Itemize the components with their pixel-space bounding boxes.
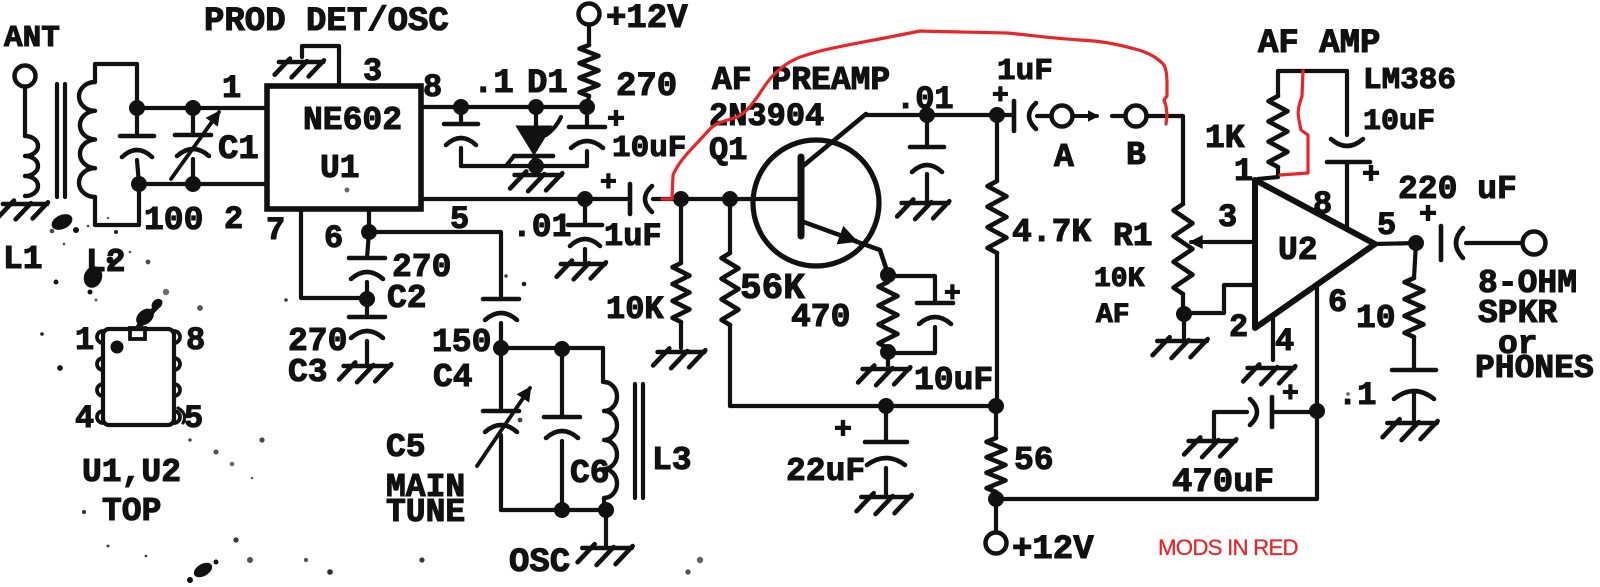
IC package U1,U2 top view [103,329,174,425]
node (C1 bottom) [185,176,201,192]
svg-text:8: 8 [423,69,442,106]
node (output) [1408,235,1424,251]
capacitor 1uF (preamp out) [1012,101,1017,131]
speaker terminal [1523,232,1546,255]
svg-text:7: 7 [266,212,285,249]
ground (470) [863,367,910,372]
wire (tank top) [501,346,603,350]
capacitor 470uF [1214,412,1247,438]
svg-text:U2: U2 [1278,232,1318,269]
wire (470 gnd stub) [886,352,890,366]
resistor 1K [1276,71,1280,96]
svg-text:470uF: 470uF [1172,464,1274,502]
ground (.01 output) [561,262,605,267]
node (470uF) [1309,403,1325,419]
node (.1 cap) [453,99,469,115]
pin 4 wire [1271,315,1275,360]
svg-text:.01: .01 [512,209,571,246]
svg-text:+: + [992,81,1009,112]
capacitor 10uF (NE602 supply) [585,107,589,127]
node (56 top) [988,398,1004,414]
svg-text:4: 4 [75,400,94,437]
capacitor C4 150 [483,297,519,302]
svg-text:U1,U2: U1,U2 [82,454,181,491]
ground (22uF) [861,495,910,500]
svg-text:150: 150 [432,324,491,361]
svg-text:C4: C4 [433,359,473,396]
node (Q1 emitter) [880,267,896,283]
antenna terminal ANT [15,66,36,87]
svg-text:L3: L3 [652,442,692,479]
svg-text:.1: .1 [1338,377,1376,414]
svg-text:AF: AF [1096,300,1130,331]
node (L2 bottom) [131,176,147,192]
power terminal +12V (top) [579,4,600,25]
inductor L2 [79,82,95,197]
svg-text:LM386: LM386 [1363,63,1456,98]
wire (gain rail) [1278,69,1347,73]
resistor 56K [728,199,732,253]
transistor Q1 [753,140,879,266]
inductor L1 [25,136,38,196]
svg-text:1uF: 1uF [604,218,662,255]
svg-text:NE602: NE602 [303,102,402,139]
resistor 10K (base) [679,199,683,263]
red mod wire (gain) [1280,71,1308,175]
scan speckles [1346,392,1350,396]
pin 6 wire [367,209,371,232]
node (tank top) [493,340,509,356]
pin 6 wire [996,285,1317,499]
transformer core (L3) [633,384,637,498]
node (Q1 base) [673,191,689,207]
wire (pin6 to C4) [369,232,501,299]
svg-text:100: 100 [144,202,203,239]
svg-text:4: 4 [1275,323,1294,360]
svg-text:C3: C3 [288,354,328,391]
IC U1 NE602 box [267,86,421,209]
svg-text:1: 1 [222,70,241,107]
svg-text:2: 2 [224,201,243,238]
capacitor 100 [135,108,139,136]
capacitor 1uF (coupling) [628,184,633,214]
svg-text:R1: R1 [1113,218,1153,255]
svg-text:10K: 10K [606,291,664,328]
capacitor .1 [459,107,463,124]
svg-text:1: 1 [1234,153,1253,190]
svg-text:6: 6 [324,220,343,257]
ink smudge (L1 ground) [49,211,75,233]
resistor 10 (zobel) [1414,243,1416,278]
resistor 270 (supply) [580,45,599,96]
pin 5 output wire [421,197,630,201]
svg-text:1: 1 [75,322,94,359]
svg-text:Q1: Q1 [709,132,747,169]
svg-text:TUNE: TUNE [386,494,465,531]
svg-text:+: + [1282,379,1299,410]
wire (R1 gnd stub) [1182,314,1186,338]
power terminal +12V (bottom) [986,533,1007,554]
svg-text:+: + [1362,159,1380,193]
capacitor 10uF (gain) [1345,71,1349,135]
svg-text:5: 5 [184,400,203,437]
op-amp U2 LM386 [1255,180,1375,328]
capacitor C2 270 [367,232,369,258]
node (.01 preamp) [919,107,935,123]
node (22uF) [878,398,894,414]
svg-text:ANT: ANT [4,21,60,56]
node (C6 top) [554,341,570,357]
node (C6 bottom) [554,502,570,518]
svg-text:+: + [944,279,961,310]
ground (R1) [1157,339,1206,344]
node (270/10uF) [579,99,595,115]
node (56/rail) [988,491,1004,507]
pin 5 wire [1375,243,1416,244]
svg-text:56: 56 [1014,442,1054,479]
node (C1 top) [185,100,201,116]
node (56K tap) [722,191,738,207]
svg-text:TOP: TOP [102,493,161,530]
svg-text:.1: .1 [473,65,514,103]
svg-text:PHONES: PHONES [1475,350,1594,387]
ground (oscillator) [582,546,631,551]
node (D1 bottom) [528,158,544,174]
wire (osc ground stub) [604,510,608,545]
svg-text:6: 6 [1328,284,1347,321]
svg-text:10K: 10K [1094,264,1145,295]
transformer core [55,84,59,197]
svg-text:3: 3 [1218,199,1237,236]
svg-text:270: 270 [616,68,677,106]
svg-text:10uF: 10uF [914,362,993,399]
ink smudge [133,305,157,329]
svg-text:22uF: 22uF [786,453,865,490]
ground (pin 3) [279,60,323,65]
svg-text:10: 10 [1356,300,1396,337]
wire (base) [681,197,800,201]
svg-text:10uF: 10uF [1363,105,1435,139]
svg-text:MODS IN RED: MODS IN RED [1158,535,1299,560]
wire (decoupling rail) [461,164,587,168]
capacitor 10uF (emitter) [888,276,935,303]
inductor L3 [601,348,605,382]
pin 3 wire [302,46,339,86]
capacitor C3 270 [365,299,369,317]
capacitor C6 [560,349,564,417]
svg-text:OSC: OSC [509,544,570,582]
svg-text:10uF: 10uF [612,131,686,166]
svg-text:8: 8 [186,322,205,359]
svg-text:PROD DET/OSC: PROD DET/OSC [204,3,449,41]
capacitor 220uF [1439,226,1444,260]
ground (470uF) [1189,439,1236,444]
ground (C3) [344,364,391,369]
collector wire [866,113,1014,117]
ground (D1) [515,173,562,178]
svg-text:AF PREAMP: AF PREAMP [712,62,890,99]
svg-text:1K: 1K [1205,120,1245,157]
svg-text:C1: C1 [218,131,259,169]
capacitor .01 (preamp) [925,115,929,147]
svg-text:AF AMP: AF AMP [1258,25,1380,63]
resistor 470 [886,275,890,282]
svg-text:+12V: +12V [606,0,688,38]
resistor 56 [994,406,998,438]
capacitor .01 (output) [583,199,587,225]
potentiometer R1 10K [1174,204,1193,294]
node (D1 top) [528,99,544,115]
svg-text:8: 8 [1313,186,1332,223]
ink smudge (below L2) [81,264,105,291]
svg-text:B: B [1126,137,1146,174]
svg-text:C6: C6 [570,455,610,492]
node (R1 bottom) [1176,306,1192,322]
node (C2/C3/pin7) [359,291,375,307]
svg-text:+12V: +12V [1012,531,1094,569]
svg-text:C2: C2 [387,280,427,317]
pin 7 wire [301,209,367,298]
capacitor C1 (variable) [191,108,195,135]
svg-text:C5: C5 [386,429,426,466]
svg-text:L1: L1 [3,241,43,278]
terminal A [1052,106,1073,127]
supply rail wire [730,404,996,408]
zener diode D1 [534,107,538,125]
capacitor C5 (main tune) [499,348,503,411]
svg-text:5: 5 [1377,207,1396,244]
ground (pin 4) [1248,366,1295,371]
svg-text:.01: .01 [896,81,954,118]
pin 8 wire [421,105,587,109]
ground (10K) [658,350,705,355]
node (470 bottom) [880,344,896,360]
svg-text:220 uF: 220 uF [1398,171,1517,208]
wire (+12V stub) [994,499,998,531]
ground (antenna) [3,202,47,207]
resistor 4.7K [995,115,999,181]
node (tank bottom) [598,502,614,518]
svg-text:2N3904: 2N3904 [709,98,824,135]
svg-text:470: 470 [791,299,850,336]
terminal B [1112,114,1125,118]
capacitor .1 (zobel) [1392,368,1436,373]
node (pin 6) [361,224,377,240]
red mod wire (A-B bypass) [662,31,1167,199]
svg-text:+: + [834,414,852,448]
wire (tank bottom) [501,508,606,512]
node (L2 top) [129,100,145,116]
ink smudge (bottom left) [191,560,214,580]
ground (zobel) [1387,421,1436,426]
svg-text:D1: D1 [527,65,568,103]
wire (bottom tank to pin2) [139,182,267,186]
node (4.7K/1uF) [989,107,1005,123]
node (.01 output) [577,191,593,207]
svg-text:2: 2 [1229,309,1248,346]
svg-text:U1: U1 [320,150,360,187]
svg-text:3: 3 [363,53,382,90]
ground (.01 preamp) [902,201,949,206]
capacitor 22uF [884,406,888,442]
pin 2 wire [1184,285,1255,313]
wire (top tank to pin1) [137,106,267,110]
svg-text:4.7K: 4.7K [1012,214,1091,251]
svg-text:A: A [1054,139,1074,176]
svg-text:+: + [600,168,617,199]
